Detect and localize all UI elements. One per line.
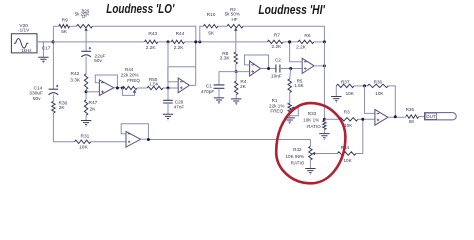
node U1 output: [116, 87, 119, 90]
wire R33 node to R3: [324, 118, 339, 120]
svg-text:2.2K: 2.2K: [174, 45, 185, 51]
wire R31 to U5: [91, 141, 126, 143]
svg-text:R3: R3: [344, 109, 350, 114]
node U5 out: [147, 138, 150, 141]
wire node to op-amp U1 plus: [86, 91, 99, 93]
wire R32 wiper to R34: [315, 153, 338, 155]
op-amp U1: [99, 80, 113, 96]
wire U4 output: [314, 65, 324, 67]
node U3 out: [267, 67, 270, 70]
wire input vertical: [53, 26, 74, 142]
svg-text:FREQ: FREQ: [270, 109, 283, 114]
svg-text:C1: C1: [206, 83, 212, 89]
svg-text:RATIO: RATIO: [307, 124, 321, 129]
svg-text:R32: R32: [293, 147, 302, 152]
svg-text:3.3K: 3.3K: [70, 78, 81, 84]
wire R3 to U6 plus: [358, 118, 375, 120]
node R44pot left: [121, 87, 124, 90]
svg-text:R36: R36: [374, 79, 383, 84]
wire R44 to R50: [137, 87, 147, 89]
svg-text:22k 20%: 22k 20%: [121, 73, 139, 78]
svg-text:1.5K: 1.5K: [149, 81, 159, 86]
svg-text:2K: 2K: [90, 107, 97, 113]
op-amp U3: [250, 61, 261, 76]
potentiometer R2 5k 50% HF: [227, 25, 243, 28]
wire R42 to node: [85, 89, 87, 99]
wire R35 to OUT: [419, 116, 425, 118]
node U4 out on vertical: [323, 64, 326, 67]
svg-text:5K: 5K: [208, 31, 215, 37]
svg-text:5K: 5K: [61, 29, 68, 35]
node R3-R34: [361, 118, 364, 121]
svg-text:10K 1%: 10K 1%: [303, 117, 319, 122]
svg-text:R33: R33: [308, 111, 317, 116]
node rail2 right loop corner: [198, 40, 201, 43]
svg-text:R9: R9: [62, 17, 68, 23]
wire U6 output: [388, 116, 406, 118]
node C28 junction: [167, 87, 170, 90]
node R37-R36: [363, 84, 366, 87]
svg-text:10K: 10K: [79, 145, 88, 151]
resistor R8 3.3K: [234, 52, 237, 64]
resistor R10 5K: [203, 25, 217, 28]
resistor R44: [171, 40, 184, 43]
output port OUT: [425, 113, 457, 120]
wire R36 to output: [388, 86, 395, 117]
wire rail1 LO: [53, 26, 195, 42]
capacitor C1 470pF: [214, 85, 225, 88]
op-amp U5: [126, 132, 141, 148]
resistor R50 1.5K: [147, 86, 163, 89]
svg-text:R7: R7: [274, 33, 280, 39]
wire rail2: [37, 41, 325, 43]
svg-text:68: 68: [409, 119, 415, 124]
wire R34 up to plus node: [356, 119, 363, 153]
op-amp U4: [302, 58, 314, 73]
svg-text:10K: 10K: [344, 123, 353, 128]
potentiometer R44 22k 20% FREQ: [122, 86, 137, 89]
op-amp U6: [375, 110, 388, 126]
svg-text:R35: R35: [406, 107, 415, 112]
svg-text:C2: C2: [275, 58, 281, 64]
wire R29 wiper down: [85, 31, 87, 52]
svg-text:2.2K: 2.2K: [271, 44, 282, 50]
op-amp U2 follower: [178, 78, 189, 93]
resistor R3 10K: [339, 118, 358, 121]
ground G2 under R47: [85, 115, 87, 120]
resistor R47 2K: [84, 100, 87, 116]
ground G3 under C28: [167, 103, 169, 114]
resistor R42 3.3K: [84, 74, 87, 90]
svg-text:R6: R6: [304, 33, 310, 39]
voltage source V20: [11, 34, 37, 53]
svg-text:2K: 2K: [240, 84, 247, 90]
resistor R9: [59, 25, 70, 28]
wire R50 to U2: [163, 87, 178, 89]
potentiometer R32 10K 99% RATIO: [309, 146, 312, 160]
wire R8 to node: [235, 64, 237, 72]
svg-text:1.5K: 1.5K: [294, 83, 304, 88]
svg-text:47nF: 47nF: [174, 105, 185, 110]
wire U5 output long: [141, 139, 311, 146]
svg-text:R44: R44: [125, 67, 134, 72]
resistor R31 10K: [75, 140, 91, 143]
wire U4 minus from rail2: [290, 42, 303, 62]
svg-text:LF: LF: [82, 14, 87, 19]
resistor R5 1.5K: [290, 69, 291, 79]
svg-text:330uF: 330uF: [29, 90, 43, 96]
resistor R33 10K 1% RATIO: [323, 121, 326, 130]
wire U3 output: [261, 68, 276, 70]
svg-text:R44: R44: [176, 31, 185, 37]
wire R37 to R36: [354, 85, 367, 87]
svg-text:R43: R43: [148, 31, 157, 37]
svg-text:OUT: OUT: [426, 114, 436, 119]
wire R1 wiper loop: [290, 108, 299, 118]
svg-text:R37: R37: [341, 79, 350, 84]
svg-text:C17: C17: [42, 46, 51, 52]
node U4 minus rail2: [288, 40, 291, 43]
svg-text:R42: R42: [70, 71, 79, 77]
capacitor C17 22uF 50v: [85, 50, 87, 52]
wire U1 output: [114, 87, 123, 89]
ground G1 under V20 wire: [42, 42, 44, 57]
node rail2 R43-R44 junction: [167, 40, 170, 43]
svg-text:2.2K: 2.2K: [296, 45, 307, 51]
resistor R34 10K: [337, 152, 356, 155]
svg-text:-1/1V: -1/1V: [18, 28, 30, 34]
resistor R36 10K: [368, 84, 389, 87]
svg-text:50v: 50v: [94, 58, 102, 64]
resistor R30 2K: [52, 101, 55, 113]
svg-text:10nF: 10nF: [271, 73, 282, 79]
capacitor C2 10nF: [276, 65, 280, 73]
wire U1 feedback: [95, 75, 117, 88]
capacitor C14 330uF 50v: [49, 88, 59, 90]
resistor R37 10K: [336, 84, 354, 87]
node follower-rail2: [194, 40, 197, 43]
wire R2 wiper down to R8: [235, 31, 237, 52]
resistor R43: [145, 40, 158, 43]
node rail2 R7-R6: [288, 40, 291, 43]
ground G6 under R1: [285, 118, 295, 124]
potentiometer R29 5k 25% LF: [77, 25, 93, 28]
svg-text:Loudness 'HI': Loudness 'HI': [258, 3, 325, 17]
svg-text:10K: 10K: [346, 91, 355, 96]
svg-text:10K: 10K: [344, 158, 353, 163]
potentiometer R1 22k 1% FREQ: [288, 103, 291, 113]
resistor R7 2.2K: [267, 40, 283, 43]
node rail1 HI end: [323, 40, 326, 43]
svg-text:2.2K: 2.2K: [146, 45, 157, 51]
wire U2 feedback box: [168, 67, 196, 82]
svg-text:FREQ: FREQ: [127, 78, 140, 83]
wire U5 feedback box: [121, 124, 148, 139]
wire C17 to R42: [85, 57, 87, 74]
node R5 top: [289, 67, 292, 70]
resistor R6 2.2K: [298, 40, 314, 43]
red highlight ellipse: [276, 103, 345, 183]
resistor R35 68: [406, 115, 419, 118]
resistor R4 2K: [235, 72, 237, 81]
svg-text:50v: 50v: [33, 96, 41, 102]
wire C2 to U4: [280, 68, 302, 70]
wire main vertical: [323, 42, 325, 119]
node input junction: [51, 40, 54, 43]
wire minus riser: [365, 86, 375, 114]
node R8-R4-C1: [235, 70, 238, 73]
svg-text:5k 50%: 5k 50%: [225, 11, 240, 16]
ground G7 under R33: [323, 130, 325, 134]
svg-text:R31: R31: [80, 133, 89, 139]
wire node to C28 row: [167, 42, 169, 88]
wire R44 wiper loop: [122, 88, 134, 95]
wire rail1 HI riser: [200, 26, 325, 42]
ground G8 under R32: [309, 160, 311, 169]
svg-text:RATIO: RATIO: [291, 160, 305, 165]
svg-text:470pF: 470pF: [201, 89, 215, 95]
capacitor C28 47nF: [167, 88, 169, 100]
svg-text:2K: 2K: [59, 105, 66, 111]
svg-text:1kHz: 1kHz: [21, 48, 32, 53]
wire U3 feedback box: [245, 55, 269, 69]
svg-text:Loudness 'LO': Loudness 'LO': [106, 2, 175, 16]
wire V20 output: [37, 41, 53, 43]
svg-text:10K: 10K: [375, 91, 384, 96]
node R42-R47: [85, 90, 88, 93]
node U6 out: [394, 115, 397, 118]
wire R5 to R1: [289, 93, 291, 103]
svg-text:R47: R47: [88, 100, 97, 106]
svg-text:R10: R10: [207, 12, 216, 18]
ground G5 under R4: [235, 95, 237, 99]
wire U2 output up to rail2: [189, 42, 195, 86]
svg-text:10K 99%: 10K 99%: [285, 154, 304, 159]
wire C1 branch: [219, 72, 250, 85]
svg-text:HF: HF: [231, 17, 237, 22]
svg-text:3.3K: 3.3K: [220, 56, 231, 62]
ground G4 under C1: [218, 88, 220, 98]
ground G9 under R37: [335, 86, 337, 97]
node R33 top: [323, 118, 326, 121]
